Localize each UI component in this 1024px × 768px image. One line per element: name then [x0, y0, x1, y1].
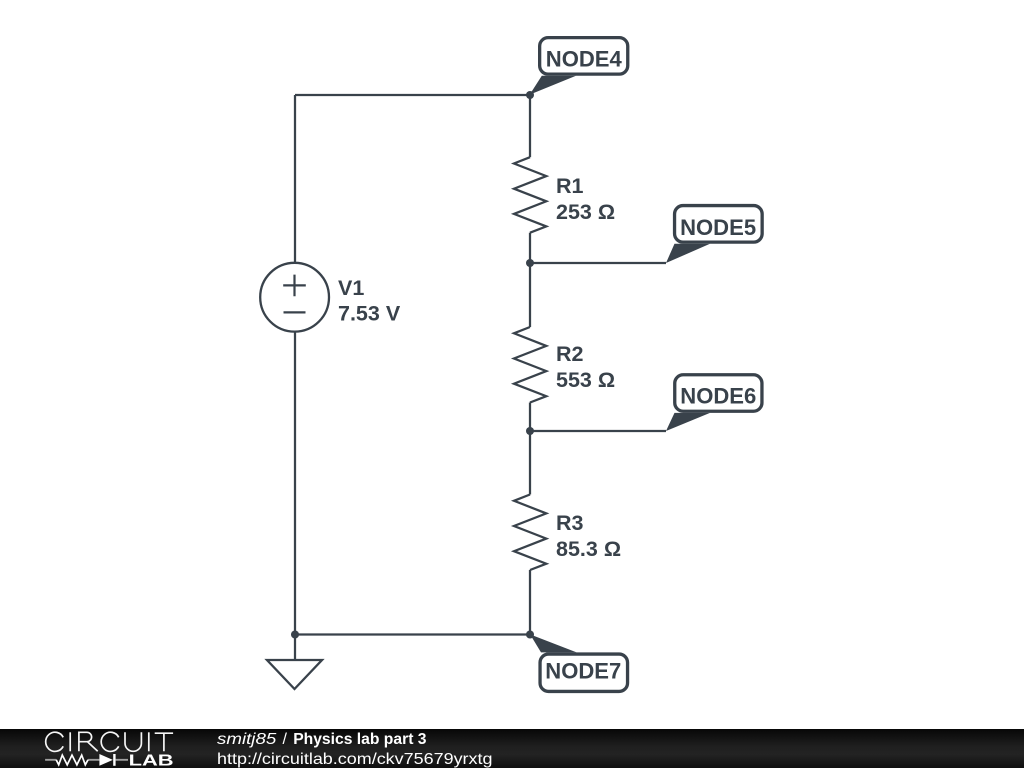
wire left vertical upper — [294, 95, 296, 263]
wire ground stub — [294, 635, 296, 660]
svg-text:NODE5: NODE5 — [680, 215, 756, 240]
V1 minus sign — [284, 311, 306, 313]
logo resistor-diode squiggle — [45, 759, 128, 761]
logo diode — [99, 754, 112, 766]
svg-text:LAB: LAB — [129, 753, 174, 768]
resistor R2 zigzag — [514, 327, 546, 403]
node flag NODE4 — [530, 38, 628, 95]
svg-text:7.53 V: 7.53 V — [338, 301, 401, 325]
ground — [267, 660, 322, 689]
node dot NODE6 — [526, 427, 534, 435]
resistor R1 zigzag — [514, 157, 546, 233]
node junction dots — [291, 91, 534, 639]
wire right stub above R1 — [529, 95, 531, 157]
wire bottom rail — [295, 633, 530, 635]
wire R2 to node6 — [529, 403, 531, 432]
svg-text:/: / — [283, 731, 288, 748]
svg-text:R1: R1 — [556, 174, 584, 198]
svg-text:85.3 Ω: 85.3 Ω — [556, 537, 621, 561]
node flag NODE5 — [666, 206, 762, 263]
wire node5 horizontal — [530, 262, 666, 264]
node dot NODE7 — [526, 631, 534, 639]
svg-text:NODE6: NODE6 — [680, 383, 756, 408]
svg-text:NODE7: NODE7 — [545, 658, 621, 683]
svg-text:253 Ω: 253 Ω — [556, 200, 615, 224]
voltage source V1 circle — [260, 263, 329, 332]
wire node6 to R3 — [529, 431, 531, 495]
node dot ground junction — [291, 631, 299, 639]
logo CIRCUIT lettering — [46, 732, 173, 751]
wire R3 to bottom rail — [529, 570, 531, 635]
svg-text:R2: R2 — [556, 342, 584, 366]
node dot NODE5 — [526, 259, 534, 267]
svg-text:V1: V1 — [338, 276, 364, 300]
node flag NODE7 — [530, 634, 627, 691]
svg-text:NODE4: NODE4 — [546, 47, 622, 72]
V1 labels — [338, 174, 621, 561]
wire node5 to R2 — [529, 263, 531, 327]
svg-text:R3: R3 — [556, 511, 584, 535]
node flag NODE6 — [666, 375, 762, 431]
svg-text:Physics lab part 3: Physics lab part 3 — [293, 731, 426, 748]
V1 plus sign — [283, 275, 306, 297]
wire R1 to node5 — [529, 233, 531, 263]
wire node6 horizontal — [530, 430, 666, 432]
wire left vertical lower — [294, 331, 296, 634]
wire top rail — [295, 94, 530, 96]
svg-text:smitj85: smitj85 — [217, 731, 276, 748]
node dot NODE4 — [526, 91, 534, 99]
svg-text:http://circuitlab.com/ckv75679: http://circuitlab.com/ckv75679yrxtg — [217, 751, 493, 768]
resistor R3 zigzag — [514, 495, 546, 571]
svg-text:553 Ω: 553 Ω — [556, 368, 615, 392]
